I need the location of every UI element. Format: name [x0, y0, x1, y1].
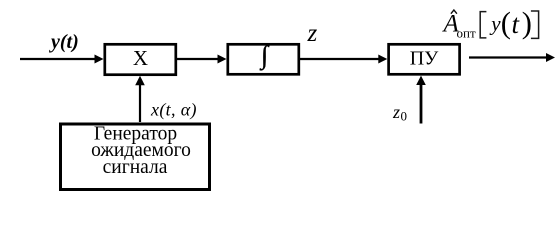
svg-text:X: X [133, 46, 148, 70]
wire z0 threshold input (vertical arrow up into PU) [416, 76, 426, 124]
wire input arrow into multiplier X [20, 55, 104, 64]
node z0 threshold level label [392, 102, 407, 124]
block integrator [228, 40, 299, 74]
svg-text:ПУ: ПУ [410, 48, 439, 70]
svg-text:сигнала: сигнала [103, 157, 168, 178]
svg-text:x(t, α): x(t, α) [150, 100, 197, 121]
wire output arrow [469, 53, 555, 62]
svg-text:y: y [489, 12, 501, 36]
node output estimate label A_opt[y(t)] [442, 6, 539, 40]
svg-text:опт: опт [457, 26, 476, 41]
block generator of expected signal [61, 123, 210, 189]
block X (multiplier) [105, 44, 176, 74]
block PU (threshold device) [389, 44, 460, 74]
wire integrator to threshold device [300, 55, 388, 64]
svg-text:(: ( [501, 6, 511, 40]
svg-text:y(t): y(t) [49, 31, 79, 53]
svg-text:z: z [307, 20, 318, 47]
svg-text:0: 0 [401, 109, 408, 124]
wire generator to multiplier (vertical arrow up) [135, 76, 145, 122]
svg-text:z: z [392, 102, 400, 122]
svg-text:): ) [522, 6, 532, 40]
wire multiplier to integrator [177, 55, 227, 64]
